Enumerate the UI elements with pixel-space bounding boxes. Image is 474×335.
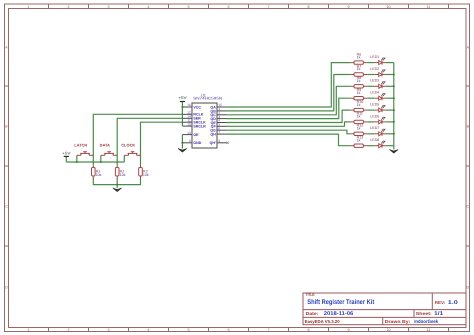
- svg-text:LED4: LED4: [370, 91, 379, 95]
- svg-text:SN74HC595N: SN74HC595N: [193, 97, 222, 101]
- svg-text:Shift Register Trainer Kit: Shift Register Trainer Kit: [307, 299, 375, 306]
- svg-text:LED8: LED8: [370, 138, 379, 142]
- svg-text:1: 1: [28, 328, 30, 332]
- svg-text:4: 4: [148, 5, 150, 9]
- svg-text:3: 3: [108, 5, 110, 9]
- svg-text:EasyEDA V5.3.20: EasyEDA V5.3.20: [305, 319, 341, 324]
- svg-text:1k: 1k: [357, 138, 361, 142]
- svg-text:11: 11: [427, 328, 431, 332]
- svg-text:Drawn By:: Drawn By:: [385, 319, 411, 324]
- svg-text:10k: 10k: [96, 173, 102, 177]
- svg-text:D: D: [466, 286, 469, 290]
- svg-text:1k: 1k: [357, 103, 361, 107]
- svg-text:VCC: VCC: [193, 105, 201, 109]
- svg-text:+5V: +5V: [178, 96, 187, 100]
- svg-text:IndoorGeek: IndoorGeek: [414, 319, 438, 325]
- svg-text:10: 10: [187, 122, 191, 126]
- svg-text:D: D: [5, 286, 8, 290]
- svg-text:9: 9: [348, 328, 350, 332]
- svg-text:1/1: 1/1: [434, 311, 443, 317]
- svg-text:1k: 1k: [357, 115, 361, 119]
- svg-text:11: 11: [427, 5, 431, 9]
- svg-text:LATCH: LATCH: [74, 143, 87, 148]
- svg-text:9: 9: [218, 139, 220, 143]
- svg-text:TITLE:: TITLE:: [306, 293, 316, 297]
- svg-text:8: 8: [308, 328, 310, 332]
- svg-text:13: 13: [187, 131, 191, 135]
- svg-text:DATA: DATA: [100, 143, 110, 148]
- svg-text:SRCLR: SRCLR: [193, 125, 206, 129]
- svg-text:1k: 1k: [357, 127, 361, 131]
- svg-text:5: 5: [188, 328, 190, 332]
- svg-text:REV:: REV:: [435, 300, 446, 305]
- svg-text:1k: 1k: [357, 67, 361, 71]
- svg-text:2: 2: [68, 328, 70, 332]
- svg-text:10: 10: [387, 328, 391, 332]
- svg-text:1k: 1k: [357, 91, 361, 95]
- svg-text:4: 4: [148, 328, 150, 332]
- svg-text:LED3: LED3: [370, 79, 379, 83]
- svg-text:1k: 1k: [357, 55, 361, 59]
- svg-text:10k: 10k: [120, 173, 126, 177]
- svg-text:LED7: LED7: [370, 126, 379, 130]
- svg-text:QH': QH': [210, 141, 216, 145]
- svg-text:6: 6: [228, 328, 230, 332]
- svg-text:6: 6: [228, 5, 230, 9]
- svg-text:+5V: +5V: [62, 152, 71, 156]
- svg-text:8: 8: [189, 139, 191, 143]
- svg-text:GND: GND: [193, 141, 201, 145]
- svg-text:Date:: Date:: [306, 311, 319, 316]
- svg-text:Sheet:: Sheet:: [416, 311, 433, 316]
- svg-text:8: 8: [308, 5, 310, 9]
- svg-text:3: 3: [108, 328, 110, 332]
- svg-text:LED5: LED5: [370, 103, 379, 107]
- svg-text:2: 2: [68, 5, 70, 9]
- svg-text:5: 5: [188, 5, 190, 9]
- svg-text:10: 10: [387, 5, 391, 9]
- svg-text:C: C: [5, 205, 8, 209]
- svg-text:CLOCK: CLOCK: [121, 143, 135, 148]
- svg-text:LED2: LED2: [370, 67, 379, 71]
- svg-text:7: 7: [268, 328, 270, 332]
- svg-text:1k: 1k: [357, 79, 361, 83]
- svg-text:C: C: [466, 205, 469, 209]
- svg-text:LED1: LED1: [370, 55, 379, 59]
- svg-text:1.0: 1.0: [448, 300, 458, 306]
- svg-text:LED6: LED6: [370, 114, 379, 118]
- svg-text:QH: QH: [210, 133, 216, 137]
- svg-text:7: 7: [218, 130, 220, 134]
- svg-text:10k: 10k: [143, 173, 149, 177]
- svg-text:OE: OE: [193, 133, 199, 137]
- svg-text:2018-11-06: 2018-11-06: [324, 311, 354, 317]
- svg-text:16: 16: [187, 103, 191, 107]
- svg-text:1: 1: [28, 5, 30, 9]
- svg-text:7: 7: [268, 5, 270, 9]
- svg-text:9: 9: [348, 5, 350, 9]
